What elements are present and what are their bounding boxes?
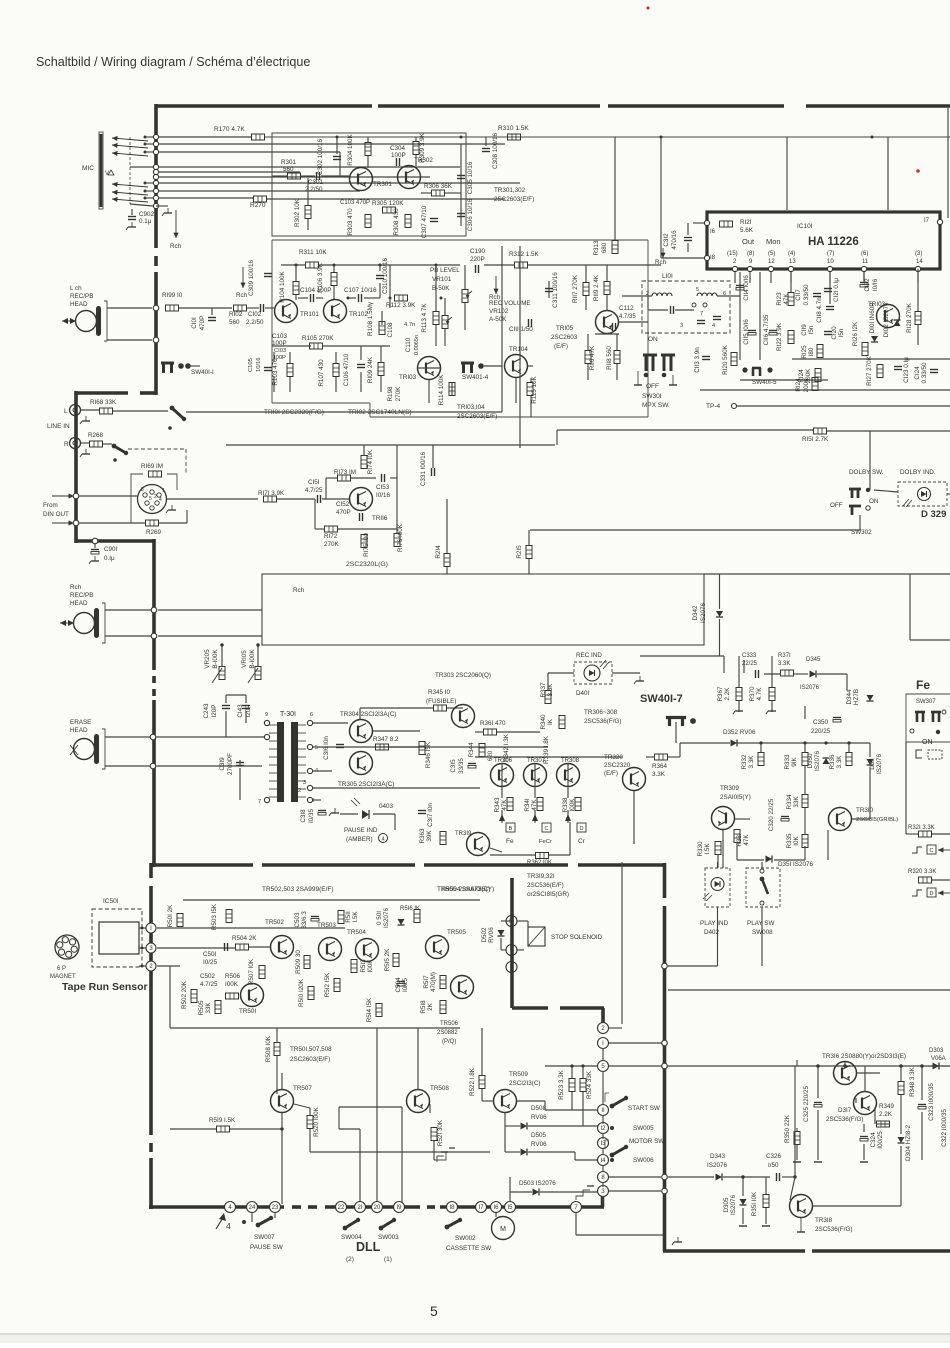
svg-text:RI25: RI25 bbox=[801, 345, 808, 359]
resistor R517 bbox=[440, 976, 446, 989]
svg-text:14: 14 bbox=[916, 259, 923, 265]
connector pin 6 bbox=[506, 962, 517, 973]
R347 out wire bbox=[389, 746, 420, 748]
R524 top wire bbox=[582, 1066, 584, 1078]
resistor R119 bbox=[604, 282, 610, 295]
R350 label bbox=[784, 1114, 791, 1143]
svg-text:OFF: OFF bbox=[646, 383, 659, 390]
C333 label bbox=[742, 653, 757, 659]
D506 label bbox=[531, 1105, 547, 1112]
C326 value bbox=[768, 1162, 779, 1169]
svg-text:TR3I0: TR3I0 bbox=[856, 807, 874, 814]
C124 label bbox=[914, 366, 921, 380]
TR317 top wire bbox=[864, 1066, 866, 1092]
svg-text:CII7: CII7 bbox=[795, 289, 802, 301]
VR102 top wire bbox=[444, 298, 446, 315]
svg-text:6 P: 6 P bbox=[57, 966, 66, 972]
svg-text:3.3K: 3.3K bbox=[652, 771, 666, 778]
svg-text:2SAI0I5(Y): 2SAI0I5(Y) bbox=[720, 794, 751, 801]
TR310 base wire2 bbox=[852, 818, 870, 820]
svg-text:TR506: TR506 bbox=[440, 1021, 459, 1027]
Mon label bbox=[766, 237, 781, 246]
connector 20 bbox=[372, 1202, 383, 1213]
R106 top wire bbox=[333, 265, 335, 272]
R519 out wire bbox=[230, 1128, 282, 1130]
SW401-5 label bbox=[752, 379, 777, 386]
TR308 col wire bbox=[567, 763, 569, 798]
TR102 type bbox=[348, 409, 412, 416]
Rch head label3 bbox=[70, 600, 88, 607]
R364 in wire bbox=[646, 756, 655, 758]
SW007 label bbox=[254, 1234, 275, 1241]
L101 wire a bbox=[647, 296, 649, 310]
D101 label bbox=[869, 303, 876, 334]
CASSETTE label bbox=[446, 1245, 491, 1252]
sw302 bottom wire bbox=[859, 515, 861, 530]
svg-text:DOLBY IND.: DOLBY IND. bbox=[900, 469, 936, 476]
C503 label bbox=[294, 912, 301, 928]
TR101 type bbox=[264, 409, 324, 416]
title text bbox=[36, 55, 310, 69]
D311 top wire bbox=[869, 743, 871, 757]
R309 label bbox=[419, 132, 426, 163]
ON label sw301 bbox=[648, 336, 658, 343]
mic lead dot 1 bbox=[144, 136, 147, 139]
svg-text:3.3K: 3.3K bbox=[836, 755, 843, 769]
C117 value bbox=[803, 284, 810, 306]
resistor R311 bbox=[306, 262, 319, 268]
transistor TR509 bbox=[494, 1090, 517, 1113]
D342 top wire bbox=[719, 574, 721, 609]
svg-text:VR101: VR101 bbox=[432, 276, 452, 283]
switch SW307 contacts bbox=[910, 710, 946, 734]
T301 pin8 node bbox=[264, 734, 269, 739]
SW005 label bbox=[633, 1125, 654, 1132]
resistor R507 bbox=[259, 966, 265, 979]
svg-text:PAUSE SW: PAUSE SW bbox=[250, 1244, 283, 1251]
svg-text:R35I I0K: R35I I0K bbox=[751, 1191, 758, 1216]
R523 label bbox=[558, 1069, 565, 1100]
R174 top wire bbox=[363, 445, 365, 456]
PB LEVEL label bbox=[430, 267, 460, 274]
dolby feed vert bbox=[556, 430, 558, 445]
IC pin18 node bbox=[704, 255, 709, 260]
pin16 wire bbox=[693, 222, 704, 224]
capacitor C323 bbox=[918, 1105, 926, 1110]
right edge wire bbox=[947, 108, 949, 218]
D303 label bbox=[929, 1048, 944, 1054]
svg-text:R306 36K: R306 36K bbox=[424, 183, 453, 190]
svg-text:4.7n: 4.7n bbox=[404, 322, 415, 328]
dolby vert wire bbox=[869, 431, 871, 490]
R107 label bbox=[318, 359, 325, 387]
transistor TR503 bbox=[319, 938, 342, 961]
D311 label bbox=[869, 758, 876, 770]
svg-text:HEAD: HEAD bbox=[70, 600, 88, 607]
R344 value bbox=[487, 750, 494, 761]
node Rch top bbox=[151, 607, 157, 613]
svg-text:R311 10K: R311 10K bbox=[299, 249, 327, 256]
svg-text:0.0065n: 0.0065n bbox=[414, 335, 420, 355]
svg-text:R348 3.3K: R348 3.3K bbox=[909, 1066, 916, 1097]
svg-text:Mon: Mon bbox=[766, 237, 781, 246]
C119 label bbox=[801, 324, 808, 336]
mic pin node 10 bbox=[153, 203, 158, 208]
R520 to chain wire bbox=[310, 1151, 490, 1153]
junction row298 a bbox=[347, 297, 350, 300]
svg-text:2.2K: 2.2K bbox=[879, 1111, 893, 1118]
svg-text:B-I00K: B-I00K bbox=[212, 649, 219, 669]
svg-text:I00/25: I00/25 bbox=[877, 1131, 884, 1149]
TR stage wire row bbox=[475, 756, 622, 758]
D402 arrows bbox=[703, 893, 712, 901]
L101 dashed box bbox=[642, 281, 730, 333]
IC pin 11 stub bbox=[863, 272, 865, 283]
mic pin node 4 bbox=[153, 164, 158, 169]
svg-text:R312 1.5K: R312 1.5K bbox=[509, 251, 540, 258]
svg-text:SW40I-I: SW40I-I bbox=[191, 369, 214, 376]
connector 7 bbox=[571, 1202, 582, 1213]
mic arrow top 3 bbox=[112, 151, 148, 156]
resistor R104 bbox=[293, 282, 299, 295]
TR319 out wire bbox=[490, 848, 502, 852]
pin2 wire right bbox=[157, 965, 180, 967]
TR306 col wire bbox=[501, 763, 503, 798]
svg-text:10/16: 10/16 bbox=[256, 357, 262, 372]
svg-text:D503 IS2076: D503 IS2076 bbox=[519, 1180, 556, 1187]
C110 value bbox=[414, 335, 420, 355]
C243 bot wire bbox=[225, 711, 227, 737]
resistor R521 bbox=[431, 1128, 437, 1141]
C106 bot stub bbox=[360, 372, 362, 392]
capacitor C305 bbox=[457, 176, 465, 179]
svg-text:R32I 3.3K: R32I 3.3K bbox=[908, 825, 935, 831]
junction row265 a bbox=[295, 264, 298, 267]
svg-text:I/50: I/50 bbox=[768, 1162, 779, 1169]
svg-text:R114 100K: R114 100K bbox=[438, 374, 445, 406]
bias bracket bbox=[916, 750, 922, 758]
R506 value bbox=[225, 981, 239, 988]
mic bus wire 1 bbox=[158, 136, 251, 138]
junction 795 bbox=[793, 1175, 796, 1178]
svg-text:C324: C324 bbox=[870, 1132, 877, 1148]
svg-text:IS2076: IS2076 bbox=[730, 1195, 737, 1215]
pin2 column wire bbox=[739, 272, 741, 330]
svg-text:C320 22/25: C320 22/25 bbox=[768, 798, 775, 831]
R304 label bbox=[347, 133, 354, 165]
R106 bot wire bbox=[333, 286, 335, 299]
2SC2320 type bbox=[346, 561, 388, 568]
IC501 dashed outer box bbox=[92, 909, 142, 967]
svg-text:TR502,503 2SA999(E/F): TR502,503 2SA999(E/F) bbox=[262, 886, 334, 893]
svg-text:C105: C105 bbox=[248, 358, 254, 372]
TR309 type bbox=[720, 794, 751, 801]
R170 label bbox=[214, 126, 245, 133]
D102 label bbox=[883, 302, 890, 338]
svg-text:C331 I00/16: C331 I00/16 bbox=[420, 451, 427, 486]
capacitor C902 bbox=[128, 217, 136, 220]
svg-text:From: From bbox=[43, 502, 58, 509]
heavy mid bus seg2 bbox=[262, 863, 415, 867]
svg-text:SW003: SW003 bbox=[378, 1234, 399, 1241]
pot VR102 bbox=[442, 316, 452, 329]
resistor R103 bbox=[287, 364, 293, 377]
capacitor C306 bbox=[457, 214, 465, 217]
svg-text:5: 5 bbox=[696, 287, 699, 293]
C103c label bbox=[274, 348, 286, 354]
node heavy 1066 bbox=[662, 1063, 668, 1069]
svg-text:D502: D502 bbox=[481, 927, 488, 943]
svg-text:RI74 I0K: RI74 I0K bbox=[367, 449, 374, 474]
resistor R115 bbox=[527, 383, 533, 396]
transistor TR102 bbox=[324, 300, 347, 323]
svg-text:33/6.3: 33/6.3 bbox=[301, 911, 308, 929]
svg-text:TRI03: TRI03 bbox=[868, 301, 886, 308]
svg-text:C103: C103 bbox=[272, 333, 288, 340]
resistor R361 bbox=[484, 729, 497, 735]
R106 label bbox=[317, 262, 324, 293]
diode D502 bbox=[498, 930, 505, 936]
pin3 right wire bbox=[609, 1190, 661, 1192]
IC pin 13 stub bbox=[790, 272, 792, 283]
R339 label bbox=[543, 735, 550, 764]
TR507 out wire bbox=[294, 1104, 310, 1108]
svg-text:R320 3.3K: R320 3.3K bbox=[908, 869, 936, 875]
C102 wire bbox=[247, 307, 259, 309]
transistor TR504 bbox=[356, 939, 379, 962]
R128 label bbox=[906, 302, 913, 333]
svg-text:C90I: C90I bbox=[104, 546, 118, 553]
T301 winding ticks left bbox=[269, 725, 277, 797]
dolby led arrows bbox=[903, 499, 912, 507]
transistor TR316 bbox=[834, 1062, 857, 1085]
pin9 column wire bbox=[759, 272, 761, 360]
bias row wire bbox=[792, 358, 950, 360]
erase head label bbox=[70, 719, 91, 726]
SW008 label bbox=[752, 929, 773, 936]
heavy top border seg2 bbox=[378, 104, 600, 108]
led out wire bbox=[947, 493, 950, 495]
R107 bot stub bbox=[335, 377, 337, 392]
play ind top wire bbox=[717, 862, 719, 868]
C103 label bbox=[272, 333, 288, 340]
mic arrow bottom 2 bbox=[112, 190, 148, 195]
heavy top border seg3 bbox=[608, 104, 784, 108]
C324 value bbox=[877, 1131, 884, 1149]
svg-text:I0/25: I0/25 bbox=[203, 959, 218, 966]
sw006 wire2 bbox=[575, 1159, 598, 1161]
transistor TR506 bbox=[451, 976, 474, 999]
circled 4 pause bbox=[379, 834, 388, 843]
svg-text:22: 22 bbox=[338, 1205, 345, 1211]
MIC connector plate bbox=[99, 132, 103, 209]
resistor R301 bbox=[288, 173, 301, 179]
resistor R505 bbox=[215, 1001, 221, 1014]
T301 pin4 bbox=[315, 768, 318, 774]
R118 label bbox=[606, 346, 613, 370]
R302 bot wire bbox=[307, 218, 309, 230]
resistor R501 bbox=[177, 914, 183, 927]
connector pin 1 bbox=[146, 923, 156, 933]
svg-text:620: 620 bbox=[487, 750, 494, 761]
TR504 label bbox=[347, 929, 366, 936]
svg-text:R5I9 I.5K: R5I9 I.5K bbox=[209, 1117, 236, 1124]
heavy mid bus seg1 bbox=[152, 863, 253, 867]
TR309 base wire bbox=[735, 818, 750, 820]
OFF label sw302 bbox=[830, 502, 843, 509]
resistor R126 bbox=[862, 343, 868, 356]
svg-text:I6: I6 bbox=[493, 1205, 499, 1211]
svg-text:IS2076: IS2076 bbox=[700, 603, 707, 623]
svg-text:PAUSE IND: PAUSE IND bbox=[344, 827, 378, 834]
R338 value bbox=[569, 798, 576, 812]
svg-text:C190: C190 bbox=[470, 248, 486, 255]
svg-text:R2I5: R2I5 bbox=[516, 545, 523, 559]
D343 in wire bbox=[668, 1176, 714, 1178]
R301-C301 wire bbox=[300, 175, 315, 177]
svg-text:TR505: TR505 bbox=[447, 929, 466, 936]
svg-text:R367: R367 bbox=[717, 686, 724, 702]
IC501 pin wire 1 bbox=[139, 927, 146, 929]
Rch label mic bbox=[170, 243, 182, 250]
resistor R312 bbox=[515, 262, 528, 268]
heavy mid bus seg4 bbox=[578, 863, 666, 867]
svg-text:2: 2 bbox=[298, 788, 301, 794]
svg-text:20: 20 bbox=[374, 1205, 381, 1211]
R347 label bbox=[373, 736, 399, 743]
PLAY IND dashed box bbox=[705, 868, 730, 907]
IC101 label bbox=[797, 223, 813, 230]
svg-text:REC/PB: REC/PB bbox=[70, 293, 93, 300]
svg-text:R5I4 I5K: R5I4 I5K bbox=[366, 997, 373, 1022]
svg-text:SW401-4: SW401-4 bbox=[462, 374, 489, 381]
ground DIN bbox=[166, 505, 176, 513]
left col down wire bbox=[169, 966, 171, 1028]
R121 value bbox=[740, 227, 754, 234]
R119 top stub bbox=[606, 265, 608, 281]
IC pin 13 node bbox=[788, 266, 793, 271]
svg-text:2.2K: 2.2K bbox=[724, 687, 731, 701]
R312 out wire bbox=[528, 264, 661, 266]
TR508 down wire bbox=[429, 1104, 431, 1113]
diode D342 bbox=[716, 611, 723, 617]
L101 pin7 bbox=[700, 311, 703, 317]
svg-text:I0/16: I0/16 bbox=[376, 492, 391, 499]
svg-text:C106 47/10: C106 47/10 bbox=[343, 353, 350, 386]
svg-text:470/16: 470/16 bbox=[671, 230, 678, 250]
R361 label bbox=[480, 720, 506, 727]
arrow B bbox=[499, 814, 505, 821]
svg-text:R509 30: R509 30 bbox=[295, 950, 302, 974]
TR316 type bbox=[822, 1053, 906, 1060]
svg-text:C3I5: C3I5 bbox=[450, 759, 457, 773]
R115 top stub bbox=[530, 378, 532, 382]
pin4 label bbox=[788, 251, 795, 257]
R337 top wire bbox=[547, 673, 549, 690]
R113 col wire bbox=[435, 265, 437, 311]
R520 top wire bbox=[309, 1108, 311, 1115]
TR320 label bbox=[604, 754, 623, 761]
Rch arrow C312 bbox=[660, 248, 665, 258]
svg-text:B-50K: B-50K bbox=[432, 285, 450, 292]
D351 in wire bbox=[737, 859, 764, 861]
svg-text:CI52: CI52 bbox=[336, 501, 350, 508]
junction VR105 bbox=[256, 643, 259, 646]
C333 value bbox=[742, 661, 758, 667]
svg-text:CI20: CI20 bbox=[831, 326, 838, 340]
SW302 label bbox=[851, 529, 872, 536]
svg-text:R345 I0: R345 I0 bbox=[428, 689, 451, 696]
svg-text:Fe: Fe bbox=[506, 838, 514, 845]
mic wire 4 bbox=[130, 166, 153, 168]
TR307 label bbox=[527, 758, 546, 764]
svg-text:680: 680 bbox=[601, 242, 608, 253]
node Rch bottom bbox=[151, 633, 157, 639]
connector pin 1b bbox=[598, 1038, 609, 1049]
heavy lower-left seg1 bbox=[149, 886, 153, 1135]
resistor R113 bbox=[433, 312, 439, 325]
connector 24 bbox=[247, 1202, 258, 1213]
TR103 label bbox=[399, 374, 417, 381]
pulse symbol C bbox=[912, 847, 922, 853]
D305 bot wire bbox=[742, 1208, 744, 1224]
TR307 to C wire bbox=[534, 810, 536, 823]
heavy solenoid line v2 bbox=[601, 1008, 605, 1023]
T301 pin9 node bbox=[264, 720, 269, 725]
erase head label2 bbox=[70, 727, 88, 734]
svg-text:I20P: I20P bbox=[211, 705, 218, 718]
C311 label bbox=[552, 272, 559, 308]
capacitor C350 bbox=[833, 718, 841, 723]
svg-text:22/25: 22/25 bbox=[742, 661, 758, 667]
capacitor C324 bbox=[860, 1137, 868, 1142]
C307 label bbox=[421, 205, 428, 238]
svg-text:C502: C502 bbox=[200, 973, 216, 980]
L101 pin3 bbox=[680, 323, 683, 329]
C123 label bbox=[903, 357, 910, 383]
R172 out wire bbox=[338, 528, 397, 530]
bracket sw005 bbox=[605, 1093, 609, 1102]
lower mid rail bbox=[170, 1027, 460, 1029]
svg-text:SW006: SW006 bbox=[633, 1157, 654, 1164]
chain wire g bbox=[602, 1182, 604, 1187]
svg-text:C3I6 I0n: C3I6 I0n bbox=[323, 736, 330, 760]
svg-text:5: 5 bbox=[430, 1303, 438, 1319]
C122 label bbox=[864, 278, 871, 292]
R524 bot wire bbox=[582, 1092, 584, 1126]
VR205 value bbox=[212, 649, 219, 669]
Rch head symbol bbox=[60, 603, 105, 643]
C190 label bbox=[470, 248, 486, 255]
MAGNET label bbox=[50, 974, 76, 980]
Lch head label2 bbox=[70, 293, 93, 300]
IC pin 11 node bbox=[861, 266, 866, 271]
C151 label bbox=[308, 479, 320, 486]
svg-text:4.7/35: 4.7/35 bbox=[619, 314, 636, 320]
R117 label bbox=[572, 274, 579, 303]
svg-text:R523 3.3K: R523 3.3K bbox=[558, 1069, 565, 1100]
TR101 base wire bbox=[265, 307, 274, 309]
R332 top wire bbox=[760, 743, 762, 753]
mic wire 10 bbox=[130, 204, 153, 206]
TR103b label bbox=[868, 301, 886, 308]
resistor R367 bbox=[736, 688, 742, 701]
arrow into D bbox=[938, 890, 950, 895]
C301-TR301 wire bbox=[321, 175, 349, 177]
resistor R514 bbox=[376, 1004, 382, 1017]
svg-text:MAGNET: MAGNET bbox=[50, 974, 76, 980]
svg-text:SW307: SW307 bbox=[916, 699, 936, 705]
